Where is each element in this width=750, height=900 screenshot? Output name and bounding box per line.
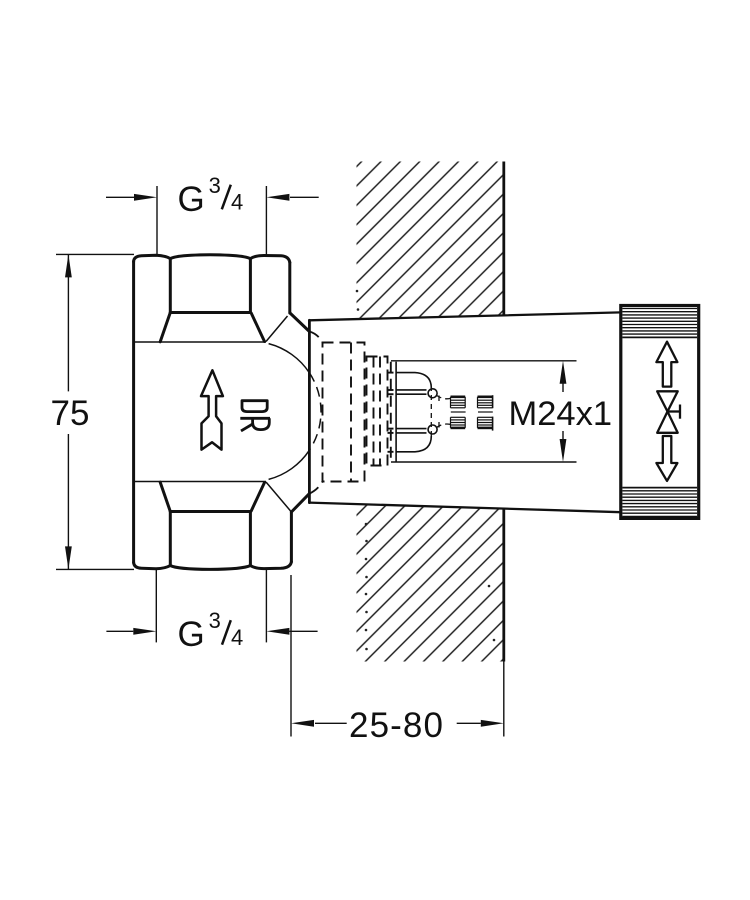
valve body outline [134,255,310,570]
cone bottom edge [309,503,620,513]
thin shoulder diagonal bottom [266,482,291,512]
top hex facet left vertical [169,259,172,313]
cone left edge [308,320,311,502]
dashed nut rect [323,343,365,482]
svg-text:3: 3 [209,173,221,198]
cone spindle housing [309,312,620,512]
body left edge [132,262,135,563]
svg-text:G: G [178,615,205,654]
dashed step rect [367,357,388,466]
wall hatch lower section [357,504,504,661]
svg-text:25-80: 25-80 [349,706,444,745]
dashed step inner line 1 [373,357,375,466]
top hex chamfer left diagonal [160,313,170,342]
bottom hex facet top line [170,510,250,513]
dashed step inner line 2 [379,357,381,466]
dashed nut facet line [350,343,352,482]
o-ring circle bottom [428,425,437,434]
letter R rotated [240,417,270,420]
bottom hex chamfer left diagonal [160,482,170,511]
thin shoulder diagonal top [266,316,288,342]
hidden spindle line [430,386,432,437]
knurl top band [622,309,697,338]
dashed vertical near wall [390,362,392,462]
wall right edge [502,162,505,662]
svg-text:M24x1: M24x1 [509,395,613,433]
hidden cartridge dashed outlines [309,332,396,494]
cone top edge [309,312,620,320]
svg-text:4: 4 [231,190,243,215]
dimension 25-80 bottom [291,575,504,737]
dome bulge arc hidden dashed [309,373,321,450]
top hex chamfer right diagonal [251,313,264,342]
dimension G 3/4 top [106,186,319,255]
protective cap [621,306,699,519]
diagonal body to cone top [290,313,309,332]
svg-text:G: G [178,180,205,219]
top hex facet right vertical [249,259,252,313]
upper band line [134,341,266,343]
body top edge [134,255,290,263]
DR marking (rotated) [240,401,270,431]
knurl bottom band [622,488,697,517]
dashed connector arc bottom [309,482,322,494]
top hex facet bottom line [170,311,250,314]
dashed stubs [388,373,397,452]
thread block 1 [451,397,466,428]
dimension M24x1 [391,361,577,462]
body bottom edge [134,562,292,570]
wall hatch upper section [357,162,504,319]
thread pitch line [451,411,466,413]
dimension 75 left [56,254,134,569]
bottom hex chamfer right diagonal [251,483,264,512]
flow direction arrow [201,370,223,449]
bottom hex facet right vertical [249,512,252,566]
diagonal body to cone bottom [291,494,309,512]
thread block 2 [478,395,493,430]
dimension G 3/4 bottom [106,570,317,642]
valve bowtie symbol [657,391,680,433]
o-ring circle top [428,389,437,398]
open arrow up [656,342,677,387]
cartridge head solid detail [396,362,450,462]
open arrow down [656,436,677,481]
thread M24 blocks [451,395,493,430]
svg-text:4: 4 [231,625,243,650]
bottom right outer edge [290,512,293,562]
svg-text:3: 3 [209,608,221,633]
letter D rotated [242,401,267,412]
bottom hex facet left vertical [169,512,172,566]
dome bulge arc solid top [269,344,310,373]
top right outer edge [288,263,291,314]
lower band line [134,481,266,483]
dashed connector arc top [309,332,322,343]
svg-text:75: 75 [51,394,90,433]
wall speckle dots [356,290,496,651]
dome bulge arc solid bottom [269,450,310,479]
